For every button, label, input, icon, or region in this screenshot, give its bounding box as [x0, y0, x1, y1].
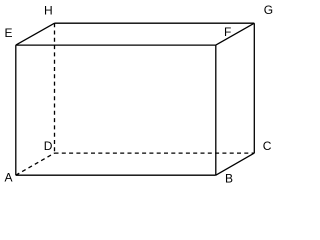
- svg-text:G: G: [264, 3, 273, 17]
- wire edge E-H (top left depth): [16, 23, 55, 45]
- wire edge D-C hidden (back bottom, dashed): [55, 152, 255, 154]
- wire edge E-F (front top): [16, 44, 216, 46]
- wire edge H-D hidden (back left, dashed): [54, 23, 56, 153]
- wire edge E-A (front left): [15, 45, 17, 175]
- wire edge F-G (top right depth): [216, 23, 255, 45]
- wire edge F-B (front right): [215, 45, 217, 175]
- wire edge G-C (back right): [253, 23, 255, 153]
- svg-text:E: E: [5, 26, 13, 40]
- wire edge H-G (back top): [55, 22, 255, 24]
- svg-text:C: C: [263, 139, 272, 153]
- cuboid wireframe diagram: [0, 0, 278, 191]
- svg-text:D: D: [44, 139, 53, 153]
- wire edge B-C (bottom right depth): [216, 153, 255, 175]
- svg-text:A: A: [5, 170, 13, 184]
- svg-text:H: H: [44, 4, 53, 18]
- svg-text:F: F: [224, 25, 231, 39]
- svg-text:B: B: [225, 171, 233, 185]
- wire edge A-B (front bottom): [16, 174, 216, 176]
- wire edge A-D hidden (bottom left depth, dashed): [16, 153, 55, 175]
